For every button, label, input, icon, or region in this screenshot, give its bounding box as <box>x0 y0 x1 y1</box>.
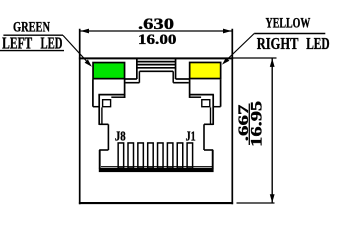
svg-text:J1: J1 <box>186 129 196 144</box>
svg-text:.630: .630 <box>138 16 174 33</box>
svg-text:LEFT: LEFT <box>2 33 33 52</box>
svg-text:J8: J8 <box>115 129 126 144</box>
svg-text:16.00: 16.00 <box>138 32 177 48</box>
svg-text:LED: LED <box>306 34 329 53</box>
svg-text:RIGHT: RIGHT <box>257 34 299 53</box>
svg-text:LED: LED <box>41 33 63 52</box>
svg-text:YELLOW: YELLOW <box>266 16 311 32</box>
svg-text:16.95: 16.95 <box>249 101 266 147</box>
